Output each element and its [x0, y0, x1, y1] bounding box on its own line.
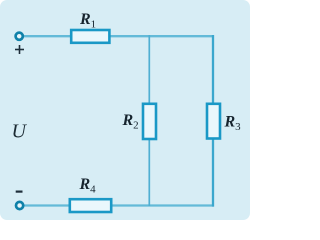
- minus sign: [16, 191, 23, 193]
- wire branch R2 upper: [148, 35, 150, 104]
- wire top: terminal to R1: [22, 35, 71, 37]
- resistor R1: [71, 30, 109, 43]
- terminal + (top): [16, 33, 23, 40]
- wire bottom: terminal to R4: [22, 204, 70, 206]
- svg-text:U: U: [12, 121, 28, 143]
- wire branch R2 lower: [148, 139, 150, 206]
- resistor R3: [207, 104, 220, 139]
- plus sign: [15, 45, 24, 54]
- wire branch R3 lower: [212, 139, 214, 207]
- wire bottom: R4 to bottom-right corner: [111, 204, 214, 206]
- resistor R2: [143, 104, 156, 139]
- wire top: R1 to top-right corner: [109, 35, 214, 37]
- resistor R4: [70, 199, 111, 212]
- panel background: [0, 0, 250, 220]
- terminal - (bottom): [16, 202, 23, 209]
- wire branch R3 upper: [212, 35, 214, 104]
